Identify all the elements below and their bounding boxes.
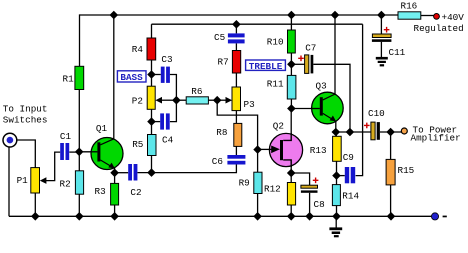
node ground rail xyxy=(332,212,341,221)
capacitor C8 (electrolytic) xyxy=(301,178,319,193)
wire P1 wiper to C1 xyxy=(46,152,60,181)
wire Q3 emitter line to C10 xyxy=(336,131,371,133)
capacitor C2 xyxy=(128,164,132,181)
svg-text:R1: R1 xyxy=(63,74,75,85)
transistor Q1 xyxy=(91,138,124,173)
transistor Q3 xyxy=(312,92,344,124)
wire C1 to base node xyxy=(69,151,79,153)
wire ground stub bottom xyxy=(335,216,337,227)
capacitor C5 xyxy=(228,33,245,37)
node Q3 collector rail xyxy=(331,11,340,20)
svg-text:C10: C10 xyxy=(368,108,385,119)
input jack xyxy=(3,133,17,147)
wire Q1 collector xyxy=(101,15,114,144)
wire Q2 base xyxy=(258,148,272,150)
node R10 rail xyxy=(287,11,296,20)
wire P3 to R8 xyxy=(235,111,237,124)
node Q3 base xyxy=(287,104,296,113)
wire rail to R10 xyxy=(290,15,292,30)
resistor R4 xyxy=(147,38,156,60)
resistor R6 xyxy=(186,97,208,104)
svg-text:TREBLE: TREBLE xyxy=(249,61,283,72)
svg-text:R5: R5 xyxy=(132,139,143,150)
wire inner rail to C5 xyxy=(235,24,237,33)
node R3 rail xyxy=(110,212,119,221)
wire C9 left xyxy=(337,175,345,177)
svg-text:C6: C6 xyxy=(212,156,223,167)
wire C8 bottom to rail xyxy=(309,193,311,217)
resistor R16 xyxy=(398,12,421,19)
resistor R14 xyxy=(332,185,340,206)
node C7 emitter line xyxy=(346,128,355,137)
wire C11 to ground xyxy=(380,42,382,57)
wire Q3 base xyxy=(291,108,319,110)
output terminal To Power Amplifier xyxy=(401,128,407,134)
resistor R1 xyxy=(75,66,84,89)
potentiometer P3 xyxy=(232,87,241,111)
node Q1 emitter xyxy=(110,169,119,178)
svg-text:Q3: Q3 xyxy=(316,81,327,92)
resistor R15 xyxy=(386,159,395,185)
node R6 / P3 wiper xyxy=(213,96,222,105)
wire R15 top xyxy=(390,132,392,159)
svg-text:C9: C9 xyxy=(343,152,354,163)
node BASS xyxy=(147,70,156,79)
capacitor C3 xyxy=(161,67,165,83)
capacitor C7 (electrolytic) xyxy=(298,55,313,74)
wire C5 to R7 xyxy=(235,43,237,50)
svg-text:C8: C8 xyxy=(314,199,325,210)
svg-text:R11: R11 xyxy=(267,78,284,89)
node P2 bottom xyxy=(147,117,156,126)
node Q2 base xyxy=(253,145,262,154)
svg-text:C7: C7 xyxy=(305,43,316,54)
svg-text:Regulated: Regulated xyxy=(414,23,464,34)
wire P1 bottom to rail xyxy=(34,193,36,216)
resistor R10 xyxy=(288,30,296,53)
wire R11 to Q3 base node xyxy=(290,99,292,109)
wire R14 bottom to rail xyxy=(336,206,338,217)
resistor R3 xyxy=(111,183,119,205)
resistor R9 xyxy=(254,172,262,193)
node R15 rail xyxy=(387,212,396,221)
svg-text:Q1: Q1 xyxy=(96,123,108,134)
wire R12 bottom to rail xyxy=(290,205,292,216)
terminal negative (blue) xyxy=(431,213,438,220)
capacitor C11 (electrolytic) xyxy=(372,27,392,42)
ground (C11) xyxy=(376,57,388,66)
wire inner feedback rail xyxy=(152,23,363,25)
wire C3 to vertical branch xyxy=(170,75,177,122)
wire R2 bottom to rail xyxy=(78,194,80,216)
svg-text:R16: R16 xyxy=(401,0,418,11)
wire bottom ground rail xyxy=(9,215,431,217)
potentiometer P2 xyxy=(147,86,155,109)
svg-text:P2: P2 xyxy=(132,95,143,106)
resistor R8 xyxy=(234,123,242,146)
svg-text:P3: P3 xyxy=(244,99,255,110)
capacitor C4 xyxy=(160,113,164,129)
node R12 rail xyxy=(287,212,296,221)
svg-text:Amplifier: Amplifier xyxy=(411,133,461,144)
ground (main) xyxy=(329,227,342,237)
wire BASS node to C3 xyxy=(152,74,161,76)
wire Q3 emitter down xyxy=(335,121,337,132)
P3 wiper arrow xyxy=(226,97,233,104)
svg-text:R13: R13 xyxy=(310,145,327,156)
svg-text:R7: R7 xyxy=(218,57,229,68)
wire Q1 emitter node to R3 xyxy=(114,173,116,184)
resistor R5 xyxy=(148,135,157,156)
P1 wiper arrow xyxy=(40,177,47,184)
svg-text:R9: R9 xyxy=(239,178,250,189)
wire Q3 collector xyxy=(323,15,335,100)
node R9 rail xyxy=(253,212,262,221)
wire R1 bottom to base node xyxy=(78,90,80,153)
svg-text:C4: C4 xyxy=(162,134,174,145)
wire R16 to +40V terminal xyxy=(421,15,434,17)
wire R15 bottom to rail xyxy=(390,185,392,216)
resistor R2 xyxy=(75,171,83,194)
svg-text:Switches: Switches xyxy=(3,114,48,125)
capacitor C1 xyxy=(60,143,64,160)
terminal +40V xyxy=(434,14,440,20)
wire Q2 base node to R9 xyxy=(257,150,259,173)
svg-text:R3: R3 xyxy=(95,186,106,197)
node TREBLE xyxy=(287,60,296,69)
wire R5 bottom xyxy=(151,156,153,173)
wire input jack ground down xyxy=(8,147,10,216)
node C5 inner rail xyxy=(232,20,241,29)
label BASS xyxy=(117,71,146,83)
wire C4 left xyxy=(152,121,161,123)
wire R6 to P3 wiper node xyxy=(208,99,217,101)
wire Q1 emitter node to C2 xyxy=(115,172,129,174)
wire Q2 emitter xyxy=(283,160,291,173)
node Q1 collector rail xyxy=(110,11,119,20)
wire top-left corner down to R1 xyxy=(79,14,81,66)
wire Q2 emitter node to C8 xyxy=(291,173,309,185)
wire P2 to node to R5 xyxy=(151,109,153,134)
node R13 R14 C9 xyxy=(332,171,341,180)
wire input jack to P1 xyxy=(17,140,35,168)
wire C6 bottom to emitter feedback line xyxy=(138,165,237,173)
svg-text:C2: C2 xyxy=(130,187,141,198)
svg-text:C3: C3 xyxy=(161,54,172,65)
node R15 top xyxy=(386,128,395,137)
wire base node to Q1 xyxy=(79,151,97,153)
svg-text:C11: C11 xyxy=(389,47,406,58)
node Q1 base xyxy=(75,148,84,157)
svg-text:R2: R2 xyxy=(60,178,71,189)
svg-text:+40V: +40V xyxy=(442,12,465,23)
wire C10 to output terminal xyxy=(380,131,402,133)
svg-text:P1: P1 xyxy=(17,175,29,186)
resistor R12 xyxy=(287,183,295,206)
wire R9 bottom to rail xyxy=(257,194,259,217)
svg-text:R12: R12 xyxy=(264,184,281,195)
wire R8 to C6 xyxy=(235,146,237,155)
negative dash xyxy=(443,216,447,218)
node Q3 emitter xyxy=(332,128,341,137)
wire main top rail xyxy=(80,14,398,16)
wire P2 wiper to node xyxy=(162,99,176,101)
capacitor C9 xyxy=(345,167,349,183)
wire C7 to Q3 emitter node xyxy=(313,64,350,132)
capacitor C10 (electrolytic) xyxy=(364,122,380,140)
wire inner rail corner to R4 xyxy=(151,24,153,38)
svg-text:C1: C1 xyxy=(60,131,72,142)
svg-text:C5: C5 xyxy=(214,32,225,43)
svg-text:R6: R6 xyxy=(191,86,202,97)
wire emitter node to R13 xyxy=(335,132,337,136)
label TREBLE xyxy=(246,60,286,72)
wire node to R6 xyxy=(176,99,186,101)
node C11 rail xyxy=(377,11,386,20)
wire R3 bottom to rail xyxy=(114,205,116,216)
wire treble node down across to Q2 base node xyxy=(217,100,257,149)
svg-text:R15: R15 xyxy=(398,165,415,176)
wire R7 to P3 xyxy=(235,73,237,87)
node R5 bottom xyxy=(147,168,156,177)
node Q2 emitter xyxy=(287,169,296,178)
svg-text:BASS: BASS xyxy=(120,72,143,83)
wire R10 to treble label node xyxy=(290,53,292,75)
svg-text:R8: R8 xyxy=(216,127,227,138)
wire Q2 emitter to R12 xyxy=(290,173,292,183)
wire Q2 collector xyxy=(283,109,291,141)
resistor R7 xyxy=(232,51,240,74)
svg-text:R4: R4 xyxy=(132,44,144,55)
transistor Q2 xyxy=(269,133,302,167)
wire R4 to BASS node to P2 xyxy=(151,60,153,86)
wire treble node to C7 xyxy=(291,63,304,65)
wire R13 to node xyxy=(336,161,338,175)
svg-text:R10: R10 xyxy=(267,36,284,47)
svg-text:R14: R14 xyxy=(342,191,359,202)
node C8 rail xyxy=(305,212,314,221)
wire node to P3 wiper arrow xyxy=(217,99,226,101)
wire inner rail right corner down to C9 xyxy=(356,24,363,175)
svg-text:To Input: To Input xyxy=(3,103,48,114)
node P2 wiper / R6 xyxy=(172,96,181,105)
capacitor C6 xyxy=(227,155,245,159)
potentiometer P1 xyxy=(31,168,40,193)
node P1 rail xyxy=(31,212,40,221)
wire node to R14 xyxy=(336,176,338,185)
svg-text:Q2: Q2 xyxy=(273,121,284,132)
resistor R13 xyxy=(333,136,342,161)
wire rail to C11 xyxy=(380,15,382,34)
wire base node to R2 xyxy=(78,152,80,171)
resistor R11 xyxy=(287,75,296,99)
node R2 rail xyxy=(75,212,84,221)
P2 wiper arrow xyxy=(155,97,162,104)
